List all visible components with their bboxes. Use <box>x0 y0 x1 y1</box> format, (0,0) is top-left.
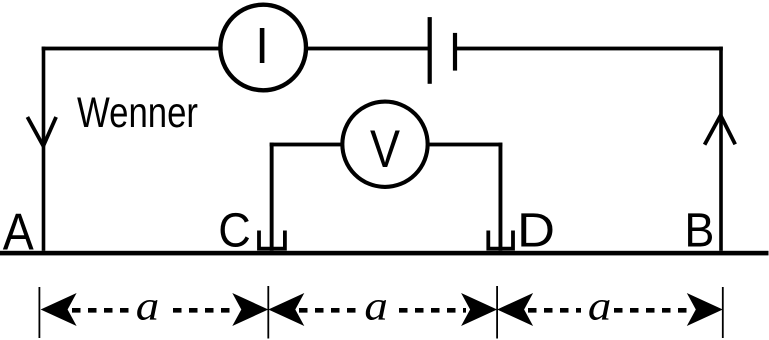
svg-text:B: B <box>684 204 714 257</box>
svg-text:V: V <box>370 120 401 179</box>
svg-text:a: a <box>136 283 160 329</box>
svg-text:C: C <box>218 205 251 258</box>
svg-text:a: a <box>588 283 612 329</box>
svg-text:a: a <box>364 283 388 329</box>
svg-text:A: A <box>3 203 34 261</box>
svg-text:Wenner: Wenner <box>77 89 198 137</box>
svg-text:D: D <box>517 204 555 257</box>
